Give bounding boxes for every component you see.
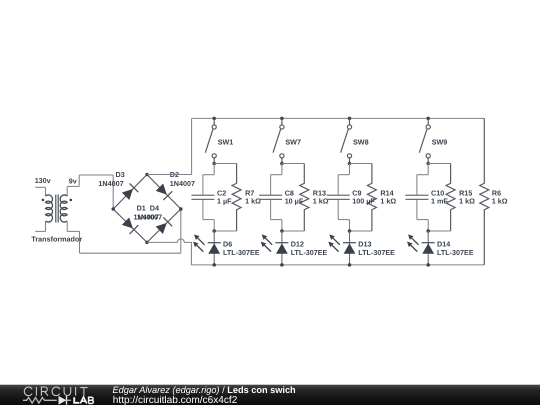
resistor R7 [232,164,241,232]
node bottom rail junction D12 [280,263,284,267]
wire negative bottom rail [191,264,484,266]
wire capacitor C10 bottom to LED node [417,200,428,231]
node bridge left corner [111,207,115,211]
LED D6 [208,231,221,265]
wire resistor R14 bottom to LED node [350,230,372,232]
svg-text:SW1: SW1 [218,138,234,147]
resistor R15 [446,164,455,232]
wire bridge bottom corner to negative rail (with hop) [147,239,191,265]
label R7 value 1 k&#937; [245,196,261,205]
wire positive top rail [192,117,485,119]
LED D12 light arrow 2 [261,242,271,252]
node below switch SW8 [348,162,352,166]
label C2 [217,188,226,197]
capacitor C8 [259,195,282,199]
LED D13 light arrow 1 [329,234,340,244]
label D3 [116,170,125,179]
transformer secondary polarity dot [70,199,73,202]
svg-text:SW8: SW8 [353,138,369,147]
capacitor C2 [191,195,214,199]
footer author line [113,385,297,395]
diode D3 (bridge upper-left) [122,183,138,199]
wire switch SW7 to junction [281,158,283,164]
wire junction to capacitor C9 top [338,164,349,195]
label D14 part LTL-307EE [437,248,474,257]
label R13 value 1 k&#937; [313,196,329,205]
transformer core [56,195,58,223]
logo text LAB [74,397,93,404]
wire junction to resistor R13 top [282,163,304,165]
svg-text:LTL-307EE: LTL-307EE [358,248,395,257]
label SW9 [432,138,448,147]
wire bridge side bottom-right [147,209,181,242]
svg-text:Transformador: Transformador [31,235,82,244]
label D2 [170,170,179,179]
label D4 value 1N4007 (overlapped) [137,212,162,221]
node LED D12 anode junction [280,229,284,233]
LED D13 light arrow 2 [328,242,338,252]
svg-text:1 kΩ: 1 kΩ [245,196,261,205]
logo text CIRCUIT [24,387,87,396]
wire capacitor C9 bottom to LED node [338,200,349,231]
svg-text:D1 D4: D1 D4 [137,203,159,212]
label C9 value [352,196,375,205]
label D3 value 1N4007 [98,179,123,188]
svg-text:1 µF: 1 µF [217,196,232,205]
label R14 value 1 k&#937; [380,196,396,205]
wire junction to resistor R7 top [214,163,236,165]
svg-text:1N4007: 1N4007 [137,212,162,221]
node LED D13 anode junction [348,229,352,233]
node below switch SW1 [212,162,216,166]
node top rail junction SW1 [212,117,216,121]
wire resistor R15 bottom to LED node [428,230,450,232]
logo diode symbol [59,396,72,405]
svg-text:100 µF: 100 µF [352,196,375,205]
node LED D6 anode junction [212,229,216,233]
wire rail to switch SW9 [427,118,429,124]
wire secondary bottom to bridge right corner [67,209,181,253]
node below switch SW7 [280,162,284,166]
switch SW7 [273,125,284,158]
transformer primary polarity dot [42,199,45,202]
label D13 [358,239,371,248]
wire bridge side left-top [113,175,147,210]
wire junction to capacitor C10 top [417,164,428,195]
footer black bar [0,385,540,405]
wire bridge side left-bottom [113,209,147,242]
svg-text:10 µF: 10 µF [285,196,304,205]
transformer primary top terminal wire [35,187,45,196]
transformer secondary winding [60,195,67,222]
node bottom rail junction D14 [426,263,430,267]
diode D1 (bridge lower-left) [122,217,138,233]
node bridge right corner [179,207,183,211]
label D2 value 1N4007 [170,179,195,188]
label D1 D4 [137,203,159,212]
svg-text:1 mF: 1 mF [431,196,448,205]
label Transformador [31,235,82,244]
wire switch SW8 to junction [349,158,351,164]
wire rail to switch SW1 [213,118,215,124]
svg-text:SW9: SW9 [432,138,448,147]
label C9 [352,188,361,197]
svg-text:SW7: SW7 [285,138,301,147]
label D13 part LTL-307EE [358,248,395,257]
label R13 [313,188,326,197]
label SW7 [285,138,301,147]
wire junction to capacitor C8 top [271,164,282,195]
LED D12 light arrow 1 [262,234,273,244]
wire secondary top to bridge left corner [67,175,113,209]
resistor R14 [367,164,376,232]
svg-text:130v: 130v [35,176,51,185]
svg-text:D14: D14 [437,239,450,248]
svg-text:Edgar Alvarez (edgar.rigo) / L: Edgar Alvarez (edgar.rigo) / Leds con sw… [113,385,297,395]
label R14 [380,188,393,197]
svg-text:D13: D13 [358,239,371,248]
logo resistor squiggle [23,398,57,404]
wire switch SW9 to junction [427,158,429,164]
svg-text:1 kΩ: 1 kΩ [313,196,329,205]
label R15 [459,188,472,197]
svg-text:1 kΩ: 1 kΩ [459,196,475,205]
node top rail junction SW9 [426,117,430,121]
label D6 part LTL-307EE [223,248,260,257]
label C8 [285,188,294,197]
wire switch SW1 to junction [213,158,215,164]
label C8 value [285,196,304,205]
node bridge top corner [145,173,149,177]
label D6 [223,239,232,248]
svg-text:1 kΩ: 1 kΩ [380,196,396,205]
wire junction to resistor R14 top [350,163,372,165]
svg-text:1 kΩ: 1 kΩ [492,196,508,205]
transformer primary winding [46,195,53,222]
label R6 value 1 k&#937; [492,196,508,205]
diode D4 (bridge lower-right) [156,217,172,233]
LED D13 [343,231,356,265]
label R15 value 1 k&#937; [459,196,475,205]
wire bridge top corner to positive rail [147,118,192,174]
svg-text:D3: D3 [116,170,125,179]
label D1 value 1N4007 (overlapped) [134,212,159,221]
node LED D14 anode junction [426,229,430,233]
node below switch SW9 [426,162,430,166]
svg-text:9v: 9v [69,176,77,185]
label 9v [69,176,77,185]
wire junction to resistor R15 top [428,163,450,165]
LED D12 [275,231,288,265]
LED D6 light arrow 1 [194,234,205,244]
LED D14 light arrow 2 [407,242,417,252]
switch SW8 [341,125,352,158]
LED D6 light arrow 2 [193,242,203,252]
node top rail junction SW7 [280,117,284,121]
label SW1 [218,138,234,147]
wire rail to switch SW8 [349,118,351,124]
wire resistor R13 bottom to LED node [282,230,304,232]
node bottom rail junction D13 [348,263,352,267]
node bridge bottom corner [145,241,149,245]
LED D14 light arrow 1 [408,234,419,244]
capacitor C9 [327,195,350,199]
label C10 value [431,196,448,205]
svg-text:1N4007: 1N4007 [170,179,195,188]
transformer primary bottom terminal wire [35,221,45,231]
LED D14 [422,231,435,265]
wire rail to switch SW7 [281,118,283,124]
label D14 [437,239,450,248]
capacitor C10 [405,195,428,199]
label D12 [291,239,304,248]
wire bridge side top-right [147,175,181,210]
svg-text:1N4007: 1N4007 [98,179,123,188]
diode D2 (bridge upper-right) [156,184,172,200]
svg-text:LTL-307EE: LTL-307EE [223,248,260,257]
wire resistor R7 bottom to LED node [214,230,236,232]
node bottom rail junction D6 [212,263,216,267]
svg-text:LTL-307EE: LTL-307EE [291,248,328,257]
label C10 [431,188,444,197]
node top rail junction SW8 [348,117,352,121]
footer url line [113,395,238,405]
switch SW1 [205,125,216,158]
switch SW9 [419,125,430,158]
svg-text:D6: D6 [223,239,232,248]
svg-text:http://circuitlab.com/c6x4cf2: http://circuitlab.com/c6x4cf2 [113,395,238,405]
wire capacitor C2 bottom to LED node [203,200,214,231]
wire capacitor C8 bottom to LED node [271,200,282,231]
label R7 [245,188,254,197]
label SW8 [353,138,369,147]
svg-text:D12: D12 [291,239,304,248]
label R6 [492,188,501,197]
label 130v [35,176,51,185]
resistor R13 [300,164,309,232]
svg-text:LTL-307EE: LTL-307EE [437,248,474,257]
label D12 part LTL-307EE [291,248,328,257]
label C2 value [217,196,232,205]
wire junction to capacitor C2 top [203,164,214,195]
resistor R6 [480,118,489,265]
